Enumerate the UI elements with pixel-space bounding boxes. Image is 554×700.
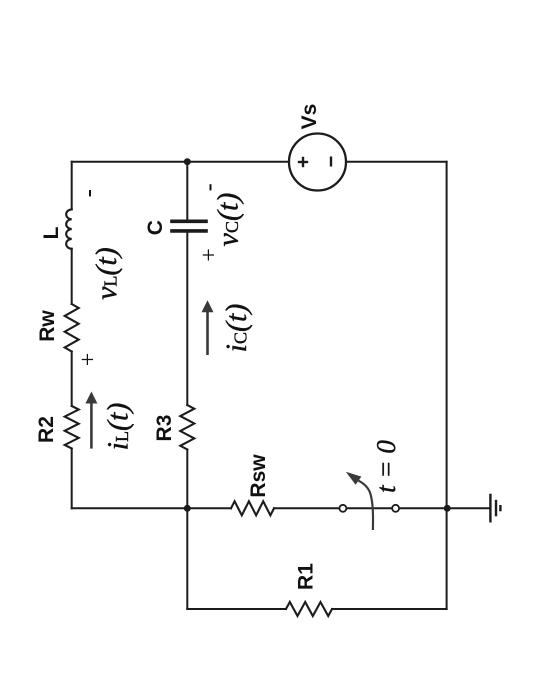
junction node right (right rail / ground) [444,505,451,512]
minus sign vL [89,190,91,196]
resistor R3 [180,405,194,450]
svg-text:Vs: Vs [298,104,321,130]
svg-text:R3: R3 [153,415,176,442]
junction node bottom (C branch / switch rail) [184,505,191,512]
svg-text:R1: R1 [295,563,318,590]
wire middle branch upper segment [186,162,188,220]
wire left branch lower segment [71,449,73,509]
source minus sign [330,157,332,167]
wire switch rail middle [274,507,447,509]
resistor Rw [65,304,79,352]
svg-text:L: L [40,226,63,239]
svg-text:Rw: Rw [36,310,59,342]
svg-text:t = 0: t = 0 [371,440,401,493]
ground [490,494,500,523]
wire right vertical [446,162,448,609]
svg-text:C: C [144,220,167,235]
wire bottom horizontal right [332,608,447,610]
switch arrow head [346,472,362,485]
wire between Rw and R2 [71,352,73,407]
switch contact right [392,505,399,512]
svg-text:+: + [76,353,102,367]
svg-text:iC(t): iC(t) [220,304,253,353]
resistor Rsw [231,501,274,515]
svg-text:R2: R2 [35,416,58,443]
wire middle branch lower segment [186,450,188,610]
wire switch rail left [72,507,231,509]
current arrow iC [202,300,214,355]
svg-text:vC(t): vC(t) [212,193,245,247]
svg-text:Rsw: Rsw [247,454,270,498]
wire left branch upper segment [71,162,73,210]
current arrow iL [85,392,97,449]
svg-text:+: + [197,248,223,262]
minus sign vC [210,184,212,190]
junction node top (C branch / top rail) [184,158,191,165]
source plus sign [298,157,308,167]
wire bottom horizontal left [187,608,286,610]
resistor R2 [65,406,79,449]
svg-text:vL(t): vL(t) [90,247,123,300]
wire between L and Rw [71,249,73,304]
wire top right of source [346,161,447,163]
wire ground stub [447,507,491,509]
resistor R1 [286,602,332,616]
svg-text:iL(t): iL(t) [102,403,135,451]
wire top horizontal (left vertical branch rail) [72,161,289,163]
capacitor C plate top [172,220,206,224]
inductor L [66,209,72,248]
capacitor C plate bottom [172,229,206,233]
voltage source Vs circle [289,134,346,191]
switch contact left [339,505,346,512]
switch blade arc [359,481,374,530]
wire middle branch between C and R3 [186,233,188,405]
